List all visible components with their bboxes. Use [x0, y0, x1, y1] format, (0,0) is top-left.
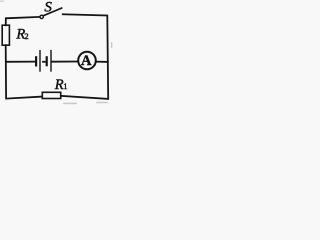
svg-text:2: 2 [24, 31, 28, 41]
svg-text:S: S [44, 0, 52, 15]
svg-text:1: 1 [63, 81, 67, 91]
svg-text:R: R [54, 77, 64, 93]
svg-text:A: A [81, 53, 92, 69]
